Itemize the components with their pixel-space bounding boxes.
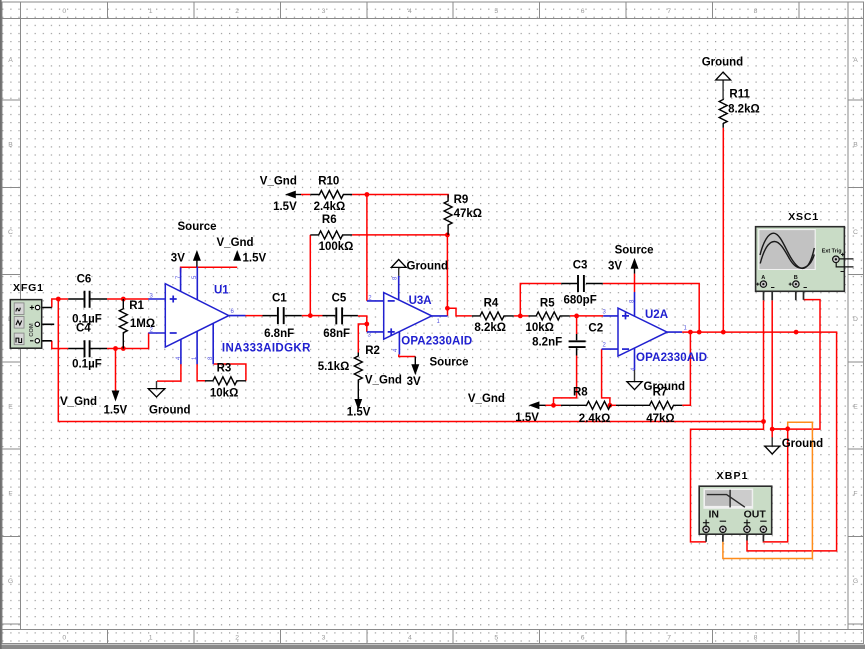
svg-text:0: 0 — [62, 8, 66, 15]
svg-text:7: 7 — [667, 635, 671, 642]
svg-text:V_Gnd: V_Gnd — [260, 175, 297, 187]
svg-text:Source: Source — [615, 245, 654, 257]
wire C4 right to U1 inverting input — [107, 333, 149, 349]
wire R5 to U2A noninverting input — [570, 315, 603, 317]
svg-text:8: 8 — [754, 8, 758, 15]
svg-text:INA333AIDGKR: INA333AIDGKR — [222, 343, 311, 355]
svg-text:R3: R3 — [217, 363, 232, 375]
label R2 value 5.1kΩ — [318, 345, 380, 373]
wire U1 RG pin to R3 right — [213, 364, 246, 381]
wire XFG1 plus terminal to C6 node — [52, 299, 68, 308]
wire feedback node to U3A inverting input — [366, 195, 368, 301]
svg-text:0.1µF: 0.1µF — [72, 359, 102, 371]
resistor R5 — [528, 312, 569, 320]
svg-text:47kΩ: 47kΩ — [646, 413, 674, 425]
svg-text:C4: C4 — [76, 323, 91, 335]
label C2 value 8.2nF — [532, 323, 603, 349]
wire XFG1 minus terminal to C4 — [52, 341, 68, 349]
oscilloscope XSC1 — [756, 227, 854, 301]
svg-text:3V: 3V — [407, 376, 421, 388]
svg-text:B: B — [794, 275, 798, 281]
wire U1 V- pin to ground — [157, 364, 181, 381]
svg-text:Ground: Ground — [782, 438, 824, 450]
svg-text:U1: U1 — [214, 285, 229, 297]
svg-text:4: 4 — [408, 635, 412, 642]
svg-text:OPA2330AID: OPA2330AID — [636, 352, 707, 364]
wire R11 bottom to output line — [722, 128, 724, 332]
svg-text:6: 6 — [581, 635, 585, 642]
capacitor C3 — [561, 275, 603, 292]
svg-text:C6: C6 — [77, 274, 92, 286]
net label Source 3V below U3A — [407, 357, 469, 389]
svg-text:8.2nF: 8.2nF — [532, 337, 562, 349]
svg-text:5: 5 — [494, 8, 498, 15]
svg-text:1.5V: 1.5V — [273, 201, 297, 213]
resistor R10 — [310, 191, 352, 199]
svg-text:1: 1 — [149, 635, 153, 642]
resistor R4 — [472, 312, 514, 320]
svg-text:1.5V: 1.5V — [243, 253, 267, 265]
svg-text:R2: R2 — [365, 345, 380, 357]
svg-text:U3A: U3A — [409, 295, 432, 307]
capacitor C1 — [263, 307, 302, 324]
wire U3A V- pin to 3V source arrow — [399, 355, 416, 357]
resistor R3 — [205, 377, 246, 385]
ground symbol below U2A — [627, 370, 642, 390]
svg-text:Source: Source — [178, 221, 217, 233]
svg-text:100kΩ: 100kΩ — [319, 241, 354, 253]
wire R8 right junction stub — [610, 404, 616, 406]
svg-text:3V: 3V — [171, 253, 185, 265]
svg-text:1.5V: 1.5V — [515, 412, 539, 424]
svg-text:E: E — [853, 403, 858, 410]
svg-text:0: 0 — [62, 635, 66, 642]
capacitor C2 — [569, 334, 586, 356]
svg-text:C: C — [8, 229, 13, 236]
wire R4 to R5 — [514, 315, 529, 317]
svg-text:3: 3 — [322, 635, 326, 642]
resistor R11 — [719, 99, 727, 128]
connector arrow 1.5V above U1 — [233, 250, 241, 261]
svg-text:XBP1: XBP1 — [717, 470, 748, 482]
svg-text:V_Gnd: V_Gnd — [60, 396, 97, 408]
capacitor C6 — [68, 291, 107, 308]
svg-text:2: 2 — [235, 8, 239, 15]
svg-text:R6: R6 — [322, 214, 337, 226]
svg-text:5.1kΩ: 5.1kΩ — [318, 361, 350, 373]
svg-text:A: A — [853, 57, 858, 64]
svg-text:V_Gnd: V_Gnd — [468, 393, 505, 405]
label C3 value 680pF — [564, 260, 597, 307]
svg-text:R11: R11 — [729, 88, 750, 100]
svg-text:47kΩ: 47kΩ — [454, 208, 482, 220]
wire U2A V+ pin to 3V connector — [634, 274, 636, 292]
ground symbol above R11 — [716, 72, 731, 99]
resistor R6 — [310, 231, 352, 239]
wire XSC1 A- to ground and to B- — [772, 300, 820, 438]
svg-text:V_Gnd: V_Gnd — [217, 237, 254, 249]
op-amp U2A OPA2330AID — [602, 292, 683, 370]
svg-text:8: 8 — [754, 635, 758, 642]
connector arrow 3V source above U2A — [631, 258, 639, 274]
svg-text:A: A — [8, 57, 13, 64]
wire R9 bottom junction to U3A output — [446, 235, 448, 308]
svg-text:1.5V: 1.5V — [104, 405, 128, 417]
svg-text:8.2kΩ: 8.2kΩ — [728, 103, 760, 115]
label R1 value 1MΩ — [129, 300, 155, 330]
label C5 value 68nF — [323, 293, 350, 341]
label R10 value 2.4kΩ — [314, 175, 346, 213]
svg-text:C: C — [853, 229, 858, 236]
svg-text:V_Gnd: V_Gnd — [365, 375, 402, 387]
wire C5 to U3A noninverting input with R2 tap — [358, 316, 367, 353]
ground symbol above U3A — [391, 260, 406, 276]
pin numbers U3A — [368, 276, 441, 352]
resistor R2 — [354, 353, 362, 384]
svg-text:2.4kΩ: 2.4kΩ — [579, 413, 611, 425]
net label V_Gnd 1.5V below R2 — [347, 375, 402, 419]
wire ground node horizontal — [772, 428, 788, 430]
svg-text:Ext Trig: Ext Trig — [822, 248, 842, 254]
resistor R7 — [616, 401, 682, 409]
function generator XFG1 — [10, 300, 54, 349]
net label Source 3V above U1 — [171, 221, 217, 265]
svg-text:U2A: U2A — [645, 309, 668, 321]
label R6 value 100kΩ — [319, 214, 354, 253]
label R5 value 10kΩ — [526, 298, 556, 335]
wire U1 supply pin to 1.5V connector — [181, 267, 238, 272]
capacitor C5 — [323, 307, 358, 324]
svg-text:6.8nF: 6.8nF — [264, 328, 294, 340]
ground symbol below XSC1 — [765, 437, 780, 454]
resistor R8 — [561, 401, 611, 409]
svg-text:G: G — [853, 578, 858, 585]
svg-text:10kΩ: 10kΩ — [526, 322, 554, 334]
wire source bus from input node down and across to XSC1 A+ — [58, 299, 763, 422]
connector arrow V_Gnd 1.5V left of R10 — [285, 191, 301, 199]
svg-text:3V: 3V — [608, 261, 622, 273]
svg-text:2: 2 — [235, 635, 239, 642]
svg-text:5: 5 — [494, 635, 498, 642]
net label Source 3V above U2A — [608, 245, 654, 273]
svg-text:B: B — [8, 142, 13, 149]
label C6 value 0.1µF — [72, 274, 102, 326]
capacitor C4 — [68, 340, 107, 357]
svg-text:R4: R4 — [484, 298, 499, 310]
label R3 value 10kΩ — [210, 363, 238, 400]
svg-text:OUT: OUT — [744, 509, 767, 521]
svg-text:1.5V: 1.5V — [347, 407, 371, 419]
connector arrow V_Gnd 1.5V below R2 — [354, 384, 362, 411]
label R8 value 2.4kΩ — [573, 387, 610, 425]
label R4 value 8.2kΩ — [474, 298, 506, 335]
svg-text:C2: C2 — [588, 323, 603, 335]
svg-text:R1: R1 — [129, 300, 144, 312]
net label V_Gnd 1.5V at C4 node — [60, 396, 127, 417]
svg-text:4: 4 — [408, 8, 412, 15]
svg-text:F: F — [853, 491, 857, 498]
wire R7 right lead up to U2A output — [682, 332, 690, 405]
svg-text:3: 3 — [322, 8, 326, 15]
svg-text:Ground: Ground — [149, 404, 191, 416]
label C4 value 0.1µF — [72, 323, 102, 371]
svg-text:OPA2330AID: OPA2330AID — [401, 336, 472, 348]
wire U2A output line to XBP1 OUT+ — [682, 332, 837, 551]
svg-text:R5: R5 — [540, 298, 555, 310]
wire R6 left lead down to signal node — [309, 235, 311, 316]
net label V_Gnd 1.5V left of R10 — [260, 175, 297, 213]
label U1 INA333AIDGKR — [214, 285, 311, 355]
wire R6 right to R9 bottom junction — [352, 234, 447, 236]
wire U2A inverting input to R8/R7 junction — [602, 349, 610, 405]
pin numbers U2A — [603, 299, 688, 371]
svg-text:COM: COM — [29, 323, 35, 337]
pin numbers U1 — [150, 275, 235, 360]
wire C1 to C5 — [302, 315, 323, 317]
svg-text:1: 1 — [149, 8, 153, 15]
label U3A OPA2330AID — [401, 295, 472, 348]
svg-text:XSC1: XSC1 — [788, 211, 818, 223]
svg-text:10kΩ: 10kΩ — [210, 388, 238, 400]
label R7 value 47kΩ — [646, 387, 674, 425]
svg-text:C5: C5 — [332, 293, 347, 305]
wire R10 right to R9 top — [352, 195, 448, 198]
op-amp U1 INA333AIDGKR — [148, 267, 245, 365]
svg-text:C3: C3 — [573, 260, 588, 272]
svg-text:B: B — [853, 142, 858, 149]
svg-text:680pF: 680pF — [564, 295, 597, 307]
label C1 value 6.8nF — [264, 293, 294, 341]
svg-text:8.2kΩ: 8.2kΩ — [474, 322, 506, 334]
svg-text:R8: R8 — [573, 387, 588, 399]
connector arrow V_Gnd 1.5V left of R8 — [529, 401, 546, 409]
bode plotter XBP1 — [699, 486, 772, 542]
wire U1 ref pin to R3 — [197, 364, 205, 381]
resistor R9 — [444, 195, 452, 235]
svg-text:Source: Source — [430, 357, 469, 369]
svg-text:Ground: Ground — [702, 57, 744, 69]
wire XBP1 OUT- to ground node — [763, 429, 787, 542]
label U2A OPA2330AID — [636, 309, 707, 364]
wire C2 bottom to R8 junction — [554, 356, 577, 406]
wire U1 output to C1 — [246, 315, 263, 317]
svg-text:6: 6 — [581, 8, 585, 15]
svg-text:E: E — [8, 403, 13, 410]
svg-text:XFG1: XFG1 — [13, 282, 43, 294]
svg-text:Ground: Ground — [407, 261, 449, 273]
net label V_Gnd 1.5V left of R8 — [468, 393, 539, 424]
net label V_Gnd 1.5V above U1 — [217, 237, 267, 265]
svg-text:7: 7 — [667, 8, 671, 15]
label R9 value 47kΩ — [454, 194, 482, 220]
wire C3 feedback from R4/R5 node to U2A output — [520, 284, 699, 333]
svg-text:C1: C1 — [272, 293, 287, 305]
wire R10 left lead to V_Gnd arrow — [301, 194, 310, 196]
connector arrow 3V above U1 — [193, 250, 201, 267]
svg-text:IN: IN — [709, 509, 720, 521]
wire 1.5V arrow to R8 left junction — [546, 404, 562, 406]
wire XSC1 A+ through bus node to XBP1 IN+ — [691, 300, 764, 542]
wire U3A output jog to R4 — [448, 308, 472, 316]
op-amp U3A OPA2330AID — [367, 276, 448, 355]
resistor R1 — [119, 299, 127, 349]
svg-text:R9: R9 — [454, 194, 469, 206]
svg-text:R10: R10 — [318, 175, 339, 187]
svg-text:A: A — [761, 275, 765, 281]
connector arrow V_Gnd 1.5V below C4 — [112, 349, 120, 402]
svg-text:F: F — [8, 491, 12, 498]
connector arrow 3V source below U3A — [411, 357, 419, 376]
svg-text:D: D — [853, 316, 858, 323]
wire C2 top lead — [576, 316, 578, 334]
svg-text:R7: R7 — [653, 387, 668, 399]
wire XBP1 IN- orange to ground node — [723, 422, 813, 558]
svg-text:G: G — [8, 578, 13, 585]
svg-text:2.4kΩ: 2.4kΩ — [314, 201, 346, 213]
svg-text:68nF: 68nF — [323, 328, 350, 340]
ground symbol below U1 — [148, 381, 165, 397]
label R11 value 8.2kΩ — [728, 88, 760, 115]
wire C6 right to U1 noninverting input — [107, 298, 149, 300]
